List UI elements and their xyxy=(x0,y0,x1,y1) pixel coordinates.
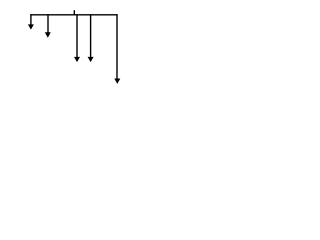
arrow 4 xyxy=(88,14,94,62)
timeline horizontal line xyxy=(30,14,117,16)
tick mark above timeline xyxy=(73,10,75,15)
arrow 3 (below tick, slightly right of it) xyxy=(74,14,80,62)
arrow 2 xyxy=(45,14,51,38)
arrow 1 (leftmost, at left end of line) xyxy=(28,14,34,29)
arrow 5 (rightmost, at right end of line, longest) xyxy=(114,14,120,84)
